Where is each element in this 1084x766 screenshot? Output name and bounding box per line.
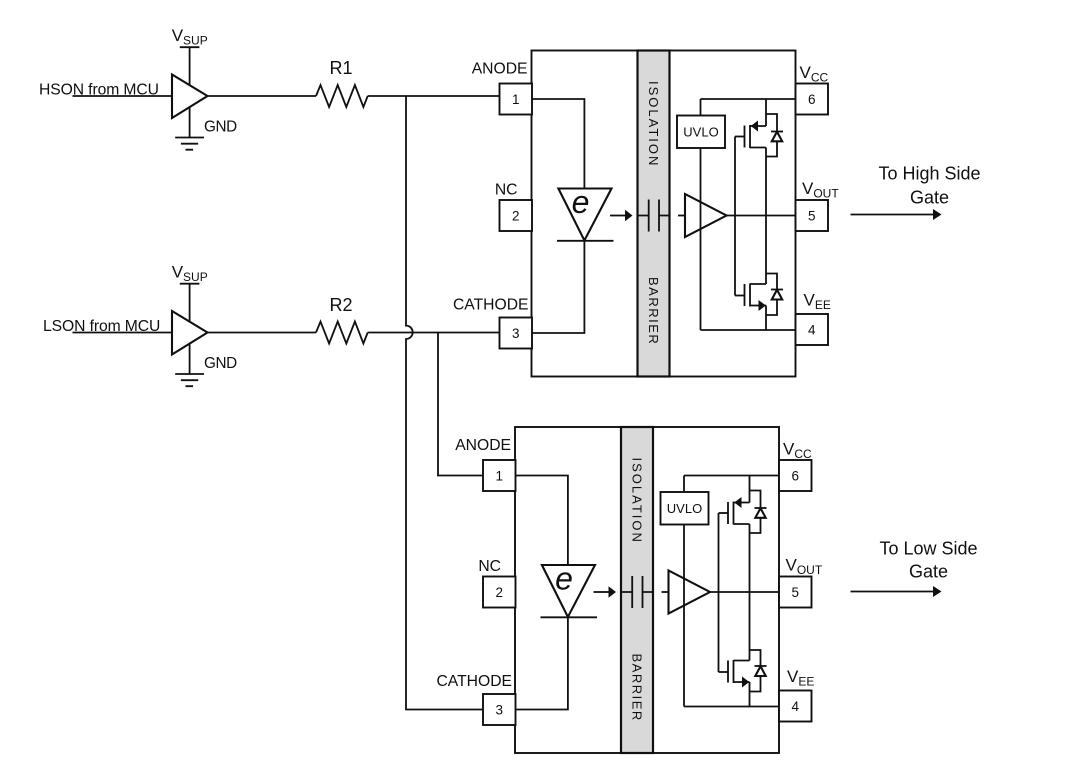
svg-text:HSON from MCU: HSON from MCU bbox=[39, 82, 159, 99]
svg-text:To Low Side: To Low Side bbox=[879, 539, 977, 559]
svg-text:To High Side: To High Side bbox=[878, 164, 980, 184]
svg-text:Gate: Gate bbox=[909, 562, 948, 582]
svg-text:R2: R2 bbox=[329, 295, 352, 315]
svg-text:R1: R1 bbox=[329, 58, 352, 78]
svg-text:Gate: Gate bbox=[910, 188, 949, 208]
svg-text:LSON from MCU: LSON from MCU bbox=[43, 318, 160, 335]
